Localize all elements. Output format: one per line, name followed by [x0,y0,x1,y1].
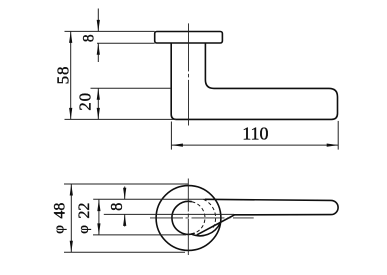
svg-text:20: 20 [76,92,95,111]
stem and lever outline [171,43,337,119]
arrow 8 bottom-view upper (pointing down) [123,188,126,200]
svg-text:110: 110 [242,124,268,144]
bar bottom edge extension (thin) [104,213,234,215]
svg-text:φ48: φ48 [51,203,68,234]
extension line neck bottom [93,234,186,236]
dimension line phi22 [98,200,100,235]
extension line rose bottom [64,251,185,253]
grip socket solid arc [191,223,220,236]
arrow phi22 bottom [97,223,100,235]
centerline top view [188,23,190,125]
neck circle hidden part (dashed) [192,202,205,233]
svg-text:8: 8 [80,34,97,42]
rose circle [156,186,221,251]
horizontal centerline bottom view [150,217,254,219]
svg-text:8: 8 [107,203,126,211]
grip taper edge [197,215,234,235]
grip socket hidden arc (dashed) [203,199,215,228]
grip bar outline [205,199,338,215]
extension line plate top [65,30,155,32]
dimension line 58 [70,31,72,119]
dimension 8 (top view) arrow lines [97,9,99,63]
extension line rose top [64,183,188,185]
neck circle solid part [172,201,195,234]
vertical centerline bottom view [187,179,189,257]
arrow phi48 top [70,184,73,196]
dimension line 110 [171,144,338,146]
svg-text:φ22: φ22 [76,203,93,234]
arrow 110 right [327,144,339,147]
arrow 58 bottom [69,108,72,120]
arrow 110 left [171,144,183,147]
extension line lever top (for dim 20) [91,87,172,89]
svg-text:58: 58 [54,66,73,85]
baseline extension (bottom reference line) [65,118,177,120]
flange plate [155,32,223,44]
arrow 8 upper (pointing down) [97,20,100,32]
extension line 110 left [170,122,172,150]
dimension line phi48 [70,184,72,252]
extension line plate bottom [97,42,155,44]
arrow 8 lower (pointing up) [97,43,100,55]
bar top edge extension (thin) [93,198,205,200]
arrow 20 bottom [97,108,100,120]
arrow 20 top [97,88,100,100]
dimension 8 (bottom view) arrow lines [124,187,126,227]
extension line 110 right [337,121,339,150]
arrow phi22 top [97,200,100,212]
arrow 58 top [69,31,72,43]
arrow 8 bottom-view lower (pointing up) [123,214,126,226]
arrow phi48 bottom [70,241,73,253]
dimension line 20 [97,88,99,119]
